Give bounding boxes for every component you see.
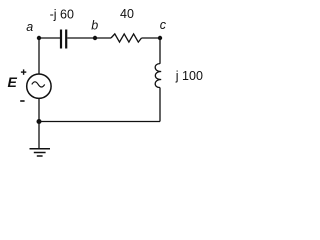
svg-text:E: E bbox=[8, 74, 18, 90]
ground bar 2 bbox=[34, 152, 46, 154]
wire: source bottom down to bottom junction and ground bbox=[38, 98, 40, 148]
node a dot bbox=[37, 36, 41, 40]
svg-text:j 100: j 100 bbox=[175, 69, 203, 83]
AC source E circle bbox=[27, 74, 51, 98]
node b dot bbox=[93, 36, 97, 40]
wire: bottom return from junction to right corner bbox=[39, 121, 160, 123]
ground bar 1 bbox=[30, 148, 51, 150]
ground bar 3 bbox=[37, 155, 43, 157]
resistor R (40) zigzag bbox=[111, 34, 142, 42]
svg-text:-j 60: -j 60 bbox=[50, 7, 74, 21]
+ polarity mark horizontal bbox=[21, 71, 26, 73]
wire: capacitor right plate to node b and resistor bbox=[67, 37, 111, 39]
svg-text:b: b bbox=[91, 19, 98, 33]
wire: resistor to node c bbox=[142, 37, 161, 39]
junction dot at ground tee bbox=[37, 119, 42, 124]
wire: inductor bottom to bottom-right corner bbox=[159, 88, 161, 122]
AC source sine wave bbox=[32, 82, 45, 87]
wire: node c down to inductor top bbox=[159, 38, 161, 64]
- polarity mark bbox=[20, 100, 24, 102]
inductor L (j 100) coil bbox=[155, 64, 161, 88]
+ polarity mark vertical bbox=[23, 69, 25, 74]
capacitor C (-j 60) left plate bbox=[60, 30, 62, 49]
wire: node a to capacitor left plate bbox=[39, 37, 60, 39]
capacitor C (-j 60) right plate bbox=[65, 30, 67, 49]
svg-text:40: 40 bbox=[120, 7, 134, 21]
svg-text:c: c bbox=[160, 18, 167, 32]
svg-text:a: a bbox=[26, 20, 33, 34]
wire: node a down to source top bbox=[38, 38, 40, 74]
node c dot bbox=[158, 36, 162, 40]
